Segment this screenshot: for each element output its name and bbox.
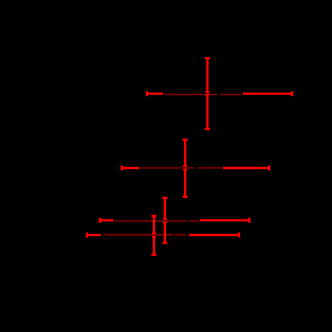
point P4 lower y-error bar with caps [151, 237, 156, 255]
point P4 thin x-error line left segment [104, 233, 174, 236]
point P4 upper y-error bar with caps [151, 216, 156, 233]
point P3 upper y-error bar with caps [162, 198, 167, 219]
point P2 right x-error bar with cap [223, 166, 269, 171]
point P3 thin x-error line right segment [189, 220, 198, 223]
point P1 left x-error bar with cap [147, 91, 163, 96]
point P4 thin x-error line right segment [175, 233, 187, 236]
point P4 left x-error bar with cap [87, 233, 101, 238]
point P1 thin x-error line left segment [165, 93, 217, 96]
point P2 thin x-error line left segment [140, 167, 194, 170]
point P2 left x-error bar with cap [122, 166, 139, 171]
point P1 thin x-error line right segment [220, 93, 242, 96]
point P3 right x-error bar with cap [200, 218, 250, 223]
point P4 right x-error bar with cap [189, 233, 239, 238]
point P2 upper y-error bar with caps [183, 140, 188, 166]
point P1 lower y-error bar with caps [205, 95, 210, 129]
point P3 lower y-error bar with caps [162, 222, 167, 242]
point P2 thin x-error line right segment [198, 167, 222, 170]
point P1 right x-error bar with cap [243, 91, 292, 96]
point P3 left x-error bar with cap [100, 218, 114, 223]
point P1 upper y-error bar with caps [205, 58, 210, 92]
point P2 lower y-error bar with caps [183, 170, 188, 197]
point P3 thin x-error line left segment [115, 220, 187, 223]
